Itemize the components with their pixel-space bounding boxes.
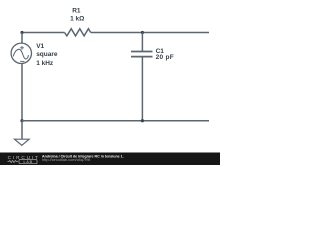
node B junction dot bottom-left xyxy=(20,119,23,122)
svg-text:square: square xyxy=(36,51,58,58)
wire: V1 bottom lead down to bottom rail xyxy=(21,63,23,120)
V1 value label 1 kHz xyxy=(36,60,54,67)
wire: C1 top lead xyxy=(141,33,143,52)
wire: ground stem xyxy=(21,121,23,139)
wire top: node A to resistor left lead xyxy=(22,32,65,34)
footer title text xyxy=(42,155,124,159)
svg-text:http://circuitlab.com/c8q7v9t: http://circuitlab.com/c8q7v9t xyxy=(42,157,91,162)
R1 value label 1 kOhm xyxy=(70,16,84,23)
svg-text:1 kHz: 1 kHz xyxy=(36,60,54,67)
svg-text:1 kΩ: 1 kΩ xyxy=(70,16,84,23)
footer url text xyxy=(42,157,91,162)
node C junction dot at capacitor top xyxy=(141,31,144,34)
svg-text:20 pF: 20 pF xyxy=(156,54,174,61)
CircuitLab logo resistor zigzag xyxy=(8,160,19,162)
node D junction dot at capacitor bottom xyxy=(141,119,144,122)
V1 reference label xyxy=(36,43,44,50)
svg-text:V1: V1 xyxy=(36,43,44,50)
C1 value label 20 pF xyxy=(156,54,174,61)
svg-text:R1: R1 xyxy=(72,8,81,15)
wire: C1 bottom lead xyxy=(141,57,143,121)
node A junction dot top-left xyxy=(20,31,23,34)
resistor R1 xyxy=(65,29,91,36)
R1 reference label xyxy=(72,8,81,15)
V1 type label square xyxy=(36,51,58,58)
CircuitLab logo LAB box xyxy=(19,160,37,165)
svg-text:LAB: LAB xyxy=(23,160,33,164)
voltage source V1 xyxy=(11,43,31,63)
wire top: resistor right lead to right end xyxy=(91,32,209,34)
ground xyxy=(15,139,30,145)
wire bottom rail xyxy=(22,120,209,122)
footer bar xyxy=(0,153,220,166)
CircuitLab logo wordmark CIRCUIT xyxy=(8,155,40,160)
capacitor C1 xyxy=(131,52,153,57)
wire: V1 top lead xyxy=(21,33,23,44)
C1 reference label xyxy=(156,48,165,55)
